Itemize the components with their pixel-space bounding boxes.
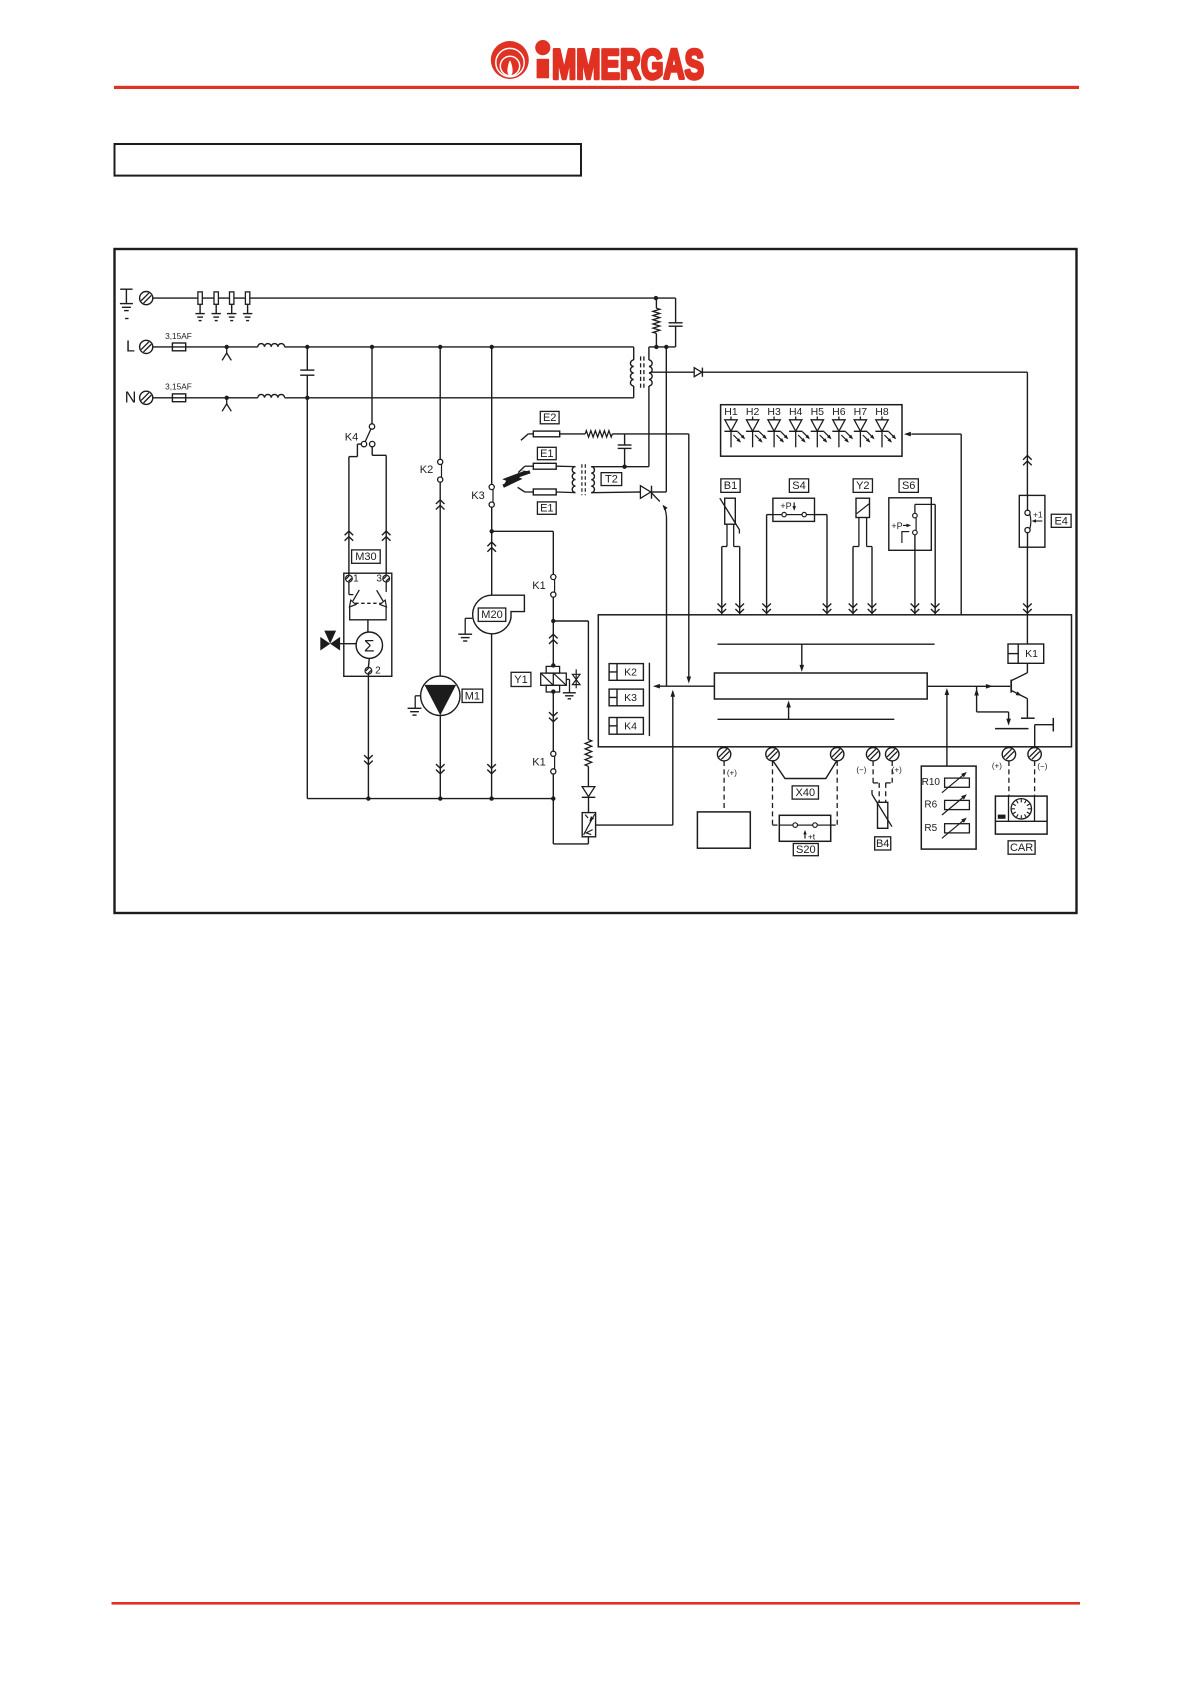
electrode E1 top (518, 463, 575, 472)
svg-text:CAR: CAR (1010, 842, 1033, 854)
svg-text:M1: M1 (465, 690, 480, 702)
bus line upper (718, 644, 935, 672)
surge arrester Z1 (195, 292, 204, 321)
svg-text:+P: +P (891, 521, 902, 531)
label S6 (899, 479, 918, 493)
wire uP left out (653, 684, 715, 689)
svg-text:H8: H8 (875, 406, 889, 418)
diagram frame (115, 249, 1077, 913)
wire B1 pins (718, 547, 745, 615)
fan M20 (473, 595, 525, 634)
svg-text:K4: K4 (345, 432, 358, 444)
flame resistor R2 (585, 740, 592, 787)
label 3,15AF (N) (165, 382, 192, 392)
svg-text:X40: X40 (796, 787, 816, 799)
wire L to K2 (439, 347, 441, 460)
wire K3 to K1 branch (492, 530, 554, 532)
relay K3 box (609, 689, 643, 706)
emitter bar (1021, 717, 1035, 719)
svg-text:(−): (−) (856, 766, 866, 775)
svg-text:1: 1 (353, 574, 359, 585)
label X40 (792, 786, 818, 799)
wire pot riser (945, 688, 950, 766)
pressure switch S6 (889, 498, 935, 551)
wire L to K4 (371, 347, 373, 424)
diode D1 (694, 368, 702, 377)
spark gap (502, 470, 530, 487)
wire E4 to bus (1023, 547, 1032, 615)
wire M20 to bus (487, 634, 496, 798)
bottom bus wire (307, 796, 555, 800)
wire R3 to E2 riser (612, 433, 689, 435)
wire L to K3 (491, 347, 493, 485)
svg-text:2: 2 (375, 666, 381, 677)
LED panel H1-H8 (721, 405, 902, 457)
sensor B1 (720, 498, 740, 546)
M30 motor (356, 620, 382, 667)
label E2 (540, 411, 559, 424)
svg-text:(−): (−) (1037, 762, 1047, 771)
surge arrester Z2 (212, 292, 221, 321)
earth terminal (140, 292, 153, 305)
label E4 (1051, 514, 1071, 527)
ignition capacitor C3 (618, 434, 632, 467)
board terminal B4- (856, 748, 879, 775)
svg-text:(+): (+) (992, 762, 1002, 771)
wire bus drop (553, 799, 588, 844)
relay K2 box (609, 664, 643, 681)
ignition resistor R3 (585, 431, 612, 437)
title box (115, 144, 582, 176)
svg-text:M20: M20 (481, 609, 502, 621)
base ground branch (974, 686, 1028, 728)
svg-text:E2: E2 (543, 412, 556, 424)
thermal fuse E4 (1019, 495, 1045, 547)
thyristor SCR (640, 486, 666, 502)
svg-text:B1: B1 (724, 480, 737, 492)
fuse F1 (172, 343, 185, 351)
svg-text:(+): (+) (727, 769, 737, 778)
wire K2 to M1 (436, 482, 445, 676)
svg-text:3,15AF: 3,15AF (165, 331, 192, 341)
M30 terminal 2 (365, 666, 381, 677)
wire N-fuse (153, 397, 258, 399)
wire L main (285, 345, 634, 349)
label B1 (721, 479, 740, 493)
label L (126, 338, 135, 355)
svg-text:Σ: Σ (364, 637, 375, 656)
label CAR (1008, 841, 1035, 854)
svg-text:+1: +1 (1033, 510, 1043, 520)
pump M1 (421, 676, 460, 715)
label B4 (875, 837, 891, 850)
flame diode D2 (582, 787, 596, 813)
wire bus to K1 box (1026, 615, 1028, 644)
svg-text:K1: K1 (1025, 648, 1038, 660)
node T2 junction (591, 465, 649, 469)
potentiometer R6 (924, 794, 969, 815)
svg-text:L: L (126, 338, 135, 355)
relay bar (648, 663, 650, 736)
svg-text:K1: K1 (532, 757, 545, 769)
transformer T2 secondary (591, 467, 640, 493)
output coupling (1035, 718, 1054, 747)
svg-text:E4: E4 (1054, 515, 1067, 527)
svg-text:S20: S20 (796, 844, 816, 856)
sensor B4 (872, 790, 892, 828)
potentiometer box (921, 766, 976, 849)
svg-text:3,15AF: 3,15AF (165, 382, 192, 392)
potentiometer R10 (922, 772, 970, 793)
board terminal X40b (831, 748, 844, 761)
relay contact K1 lower (532, 751, 556, 774)
wire opto output (596, 690, 676, 825)
transformer T2 primary (572, 467, 575, 493)
jumper X40 (773, 760, 838, 778)
wire E2 to resistor (560, 433, 586, 435)
pressure switch S4 (773, 498, 815, 521)
optocoupler U2 (582, 813, 595, 837)
svg-text:R5: R5 (924, 823, 937, 834)
relay K4 box (609, 718, 643, 735)
transformer T1 core (641, 356, 644, 389)
label T2 (601, 473, 622, 486)
board terminal CAR- (1028, 748, 1048, 771)
microprocessor box (714, 673, 927, 699)
wire Y2 pins (849, 547, 877, 615)
ground M20 (458, 618, 472, 641)
transistor Q1 (1011, 663, 1027, 717)
remote control CAR (995, 796, 1047, 834)
solenoid Y2 (853, 498, 872, 546)
wire K1 to Y1 (549, 597, 558, 666)
svg-text:+t: +t (808, 832, 816, 842)
switch S20 wiring (773, 761, 838, 825)
earth wire (153, 297, 656, 299)
svg-text:N: N (125, 389, 137, 406)
switch S20 (779, 815, 830, 841)
relay contact K1 upper (532, 574, 556, 597)
svg-text:H5: H5 (811, 406, 825, 418)
svg-text:H4: H4 (789, 406, 803, 418)
relay contact K2 (420, 459, 443, 482)
svg-text:K2: K2 (420, 464, 433, 476)
relay K1 box (1008, 644, 1044, 663)
terminal L (140, 340, 153, 353)
svg-text:K2: K2 (624, 666, 637, 678)
wire Y1 to K1 lower (549, 693, 558, 752)
label Y1 (511, 672, 531, 686)
svg-text:E1: E1 (540, 448, 553, 460)
svg-text:S4: S4 (792, 480, 805, 492)
svg-text:H3: H3 (767, 406, 781, 418)
three-way valve symbol (320, 631, 356, 651)
connector fork (N) (222, 396, 231, 412)
bottom red rule (112, 1602, 1081, 1605)
M30 terminal 1 (346, 574, 360, 585)
svg-text:E1: E1 (540, 503, 553, 515)
wire K3 to M20 (487, 507, 496, 595)
label E1 top (537, 447, 556, 460)
wire K1 to bus (552, 774, 554, 799)
fuse F2 (172, 394, 185, 402)
M30 limit switches (349, 582, 387, 620)
wire SCR cathode riser (665, 347, 667, 492)
ground Y1 (563, 679, 576, 698)
capacitor C1 (300, 347, 314, 398)
board terminal CAR+ (992, 748, 1016, 771)
svg-text:T2: T2 (605, 474, 618, 486)
svg-text:+P: +P (780, 501, 791, 511)
gas valve symbol Y1 (572, 669, 580, 688)
actuator M30 box (344, 573, 392, 676)
IMMERGAS logo (491, 40, 704, 87)
snubber resistor R1 (653, 298, 660, 347)
svg-text:K3: K3 (471, 490, 484, 502)
label E1 bottom (537, 502, 556, 515)
wire K4 right to M30 (372, 447, 390, 575)
transformer T1 secondary (649, 347, 652, 467)
relay contact K3 (471, 484, 494, 507)
inductor (N) (258, 394, 285, 397)
label M1 (462, 689, 483, 702)
wire S4 pins (762, 515, 831, 615)
transformer T2 core (582, 464, 585, 495)
label N (125, 389, 137, 406)
potentiometer R5 (924, 818, 969, 839)
svg-text:K3: K3 (624, 692, 637, 704)
solenoid valve Y1 (541, 663, 570, 694)
label M30 (352, 550, 381, 563)
svg-text:MMERGAS: MMERGAS (552, 40, 704, 87)
wire node to flame resistor (553, 621, 588, 740)
wire M1 to bus (436, 716, 445, 799)
svg-text:M30: M30 (355, 551, 376, 563)
svg-text:H1: H1 (724, 406, 738, 418)
svg-text:(+): (+) (892, 766, 902, 775)
wire E2 sense riser (687, 434, 692, 684)
SCR gate wire (663, 505, 668, 686)
wire S6 pins (911, 504, 940, 614)
svg-text:H6: H6 (832, 406, 846, 418)
label Y2 (853, 479, 872, 493)
node RC junction (649, 345, 676, 349)
svg-text:3: 3 (376, 574, 382, 585)
svg-text:K1: K1 (532, 580, 545, 592)
wire N main (285, 396, 634, 400)
control board box (598, 615, 1071, 747)
wire branch to K1 (552, 531, 554, 574)
board terminal X40a (766, 748, 779, 761)
wire M30 to bus (364, 674, 373, 799)
relay contact K4 (345, 424, 375, 447)
earth symbol (120, 289, 133, 318)
wire uP right out (927, 684, 1010, 689)
board terminal TA (+) (717, 748, 737, 778)
wire LED feed (904, 432, 961, 615)
inductor (L) (258, 344, 285, 347)
ground M1 (408, 696, 422, 715)
svg-text:S6: S6 (902, 480, 915, 492)
svg-text:Y1: Y1 (514, 674, 527, 686)
wire L-fuse (153, 346, 258, 348)
surge arrester Z3 (227, 292, 236, 321)
room thermostat box (697, 761, 750, 848)
terminal N (140, 391, 153, 404)
label S4 (789, 479, 808, 493)
svg-text:B4: B4 (876, 838, 889, 850)
surge arrester Z4 (243, 292, 252, 321)
svg-text:R6: R6 (924, 800, 937, 811)
label 3,15AF (L) (165, 331, 192, 341)
electrode E2 (521, 431, 560, 440)
svg-text:K4: K4 (624, 720, 637, 732)
connector fork (L) (222, 345, 231, 361)
top red rule (114, 86, 1079, 89)
svg-text:H7: H7 (854, 406, 868, 418)
M30 terminal 3 (376, 574, 389, 585)
label M20 (478, 608, 506, 621)
wire secondary tap (651, 371, 695, 373)
svg-text:Y2: Y2 (856, 480, 869, 492)
wire N-bus riser (306, 398, 308, 799)
wire D1 to E4 (702, 372, 1031, 495)
sensor B4 wiring (873, 761, 892, 802)
transformer T1 primary (630, 347, 633, 398)
svg-text:H2: H2 (746, 406, 760, 418)
remote control CAR wiring (1009, 761, 1035, 796)
snubber capacitor C2 (654, 296, 683, 347)
svg-text:R10: R10 (922, 777, 941, 788)
label S20 (793, 844, 818, 857)
wire K4 left to M30 (345, 444, 362, 575)
bus line lower (718, 701, 895, 720)
electrode E1 bottom (518, 487, 576, 495)
board terminal B4+ (886, 748, 903, 775)
